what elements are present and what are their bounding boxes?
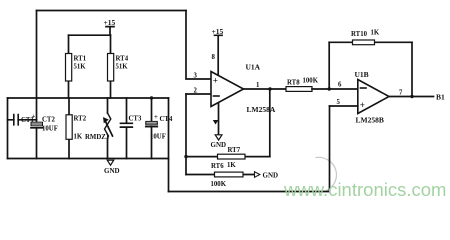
wire U1B output (389, 96, 434, 98)
wire RT7 up to output (269, 89, 271, 157)
+15 terminal left (104, 18, 116, 35)
svg-text:CT4: CT4 (160, 116, 173, 123)
svg-text:RT7: RT7 (228, 147, 241, 154)
svg-text:51K: 51K (74, 64, 87, 71)
svg-text:RT10: RT10 (351, 31, 368, 38)
wire RT7 branch (186, 156, 270, 158)
svg-text:2: 2 (194, 88, 198, 95)
wire pin2 node down to RT6 line (185, 94, 187, 175)
resistor RT8 (286, 78, 319, 92)
resistor RT6 (211, 163, 244, 188)
wire U1A pin2 horizontal (186, 93, 211, 95)
wire bottom rail left block (8, 158, 169, 160)
node RT7 tap (184, 155, 187, 158)
node output U1B (410, 95, 413, 98)
+15 terminal U1A (212, 27, 224, 75)
wire U1A output (244, 88, 287, 90)
capacitor CT1 (14, 115, 35, 125)
svg-text:RT8: RT8 (287, 80, 300, 87)
wire feedback down right (411, 42, 413, 96)
wire +15 feed horizontal (69, 34, 111, 36)
ground U1A pin4 (211, 135, 227, 149)
ground left block (104, 160, 120, 175)
resistor RT10 (351, 30, 380, 45)
svg-text:7: 7 (399, 90, 403, 97)
wire feedback up left (328, 42, 330, 89)
watermark circle logo (316, 157, 336, 190)
svg-text:10UF: 10UF (150, 134, 166, 141)
svg-text:5: 5 (337, 99, 341, 106)
svg-text:1K: 1K (227, 162, 236, 169)
wire U1B pin5 (330, 105, 358, 107)
svg-text:B1: B1 (436, 93, 445, 102)
wire left edge vertical (7, 98, 9, 159)
wire CT1 branch (8, 119, 37, 121)
svg-text:+: + (213, 76, 218, 86)
svg-text:51K: 51K (116, 64, 129, 71)
op-amp U1A (211, 63, 276, 115)
op-amp U1B (355, 70, 390, 125)
svg-text:U1B: U1B (355, 70, 369, 79)
svg-text:RT1: RT1 (74, 56, 87, 63)
wire feedback top (329, 41, 412, 43)
wire U1A pin3 vertical+horizontal (186, 11, 211, 80)
svg-text:+: + (32, 114, 36, 121)
svg-text:RMDZ1: RMDZ1 (85, 134, 110, 141)
svg-text:GND: GND (211, 141, 227, 149)
resistor RT2 (66, 98, 87, 159)
node output U1A (268, 87, 271, 90)
wire left long vertical (node A) (36, 11, 38, 123)
wire RT8 to U1B pin6 (312, 88, 358, 90)
svg-text:100K: 100K (211, 181, 227, 188)
capacitor CT3 (121, 98, 142, 159)
svg-text:+15: +15 (104, 18, 116, 27)
svg-text:RT2: RT2 (74, 116, 87, 123)
svg-text:1: 1 (256, 82, 260, 89)
wire RT6 branch (186, 174, 254, 176)
pin 4 lead and arrow (213, 103, 219, 135)
wire CT2 bottom lead (36, 128, 38, 159)
node pin6 feedback (328, 87, 331, 90)
svg-text:GND: GND (104, 167, 120, 175)
svg-text:CT2: CT2 (42, 117, 55, 124)
terminal arrow GND right (255, 172, 279, 180)
resistor RT4 (108, 35, 129, 98)
resistor RT1 (66, 35, 87, 98)
capacitor CT4 (146, 96, 173, 158)
svg-text:3: 3 (194, 73, 198, 80)
svg-text:1K: 1K (74, 134, 83, 141)
svg-text:LM258A: LM258A (247, 105, 276, 114)
resistor RT7 (218, 147, 246, 169)
svg-text:+: + (360, 100, 365, 110)
wire top from node A to U1A pin3 (37, 10, 187, 12)
svg-text:LM258B: LM258B (356, 116, 384, 125)
svg-text:RT6: RT6 (211, 163, 224, 170)
svg-text:CT3: CT3 (129, 116, 142, 123)
wire top rail left block (8, 97, 169, 99)
svg-text:RT4: RT4 (116, 56, 129, 63)
wire right side of left block down to bottom bus (168, 98, 170, 192)
svg-text:8: 8 (212, 54, 216, 61)
svg-text:U1A: U1A (246, 63, 261, 72)
sensor RMDZ1 (85, 98, 113, 159)
svg-text:100K: 100K (303, 78, 319, 85)
capacitor CT2 (31, 114, 58, 133)
wire bottom bus (169, 191, 330, 193)
svg-text:6: 6 (338, 82, 342, 89)
svg-text:+: + (154, 114, 158, 121)
svg-text:www.cintronics.com: www.cintronics.com (283, 179, 446, 200)
svg-text:1K: 1K (371, 30, 380, 37)
svg-text:10UF: 10UF (42, 126, 58, 133)
wire pin5 down to bottom bus (329, 106, 331, 192)
svg-text:GND: GND (263, 172, 279, 180)
